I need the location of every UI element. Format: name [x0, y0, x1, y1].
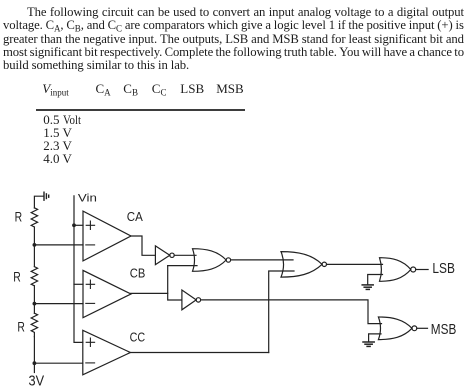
wire node A to CA minus: [34, 244, 83, 246]
ground (rotated right, top of ladder): [44, 192, 49, 200]
table rule: [36, 109, 245, 110]
svg-text:R: R: [15, 209, 23, 224]
ground under MSB gate: [363, 342, 374, 346]
NOR gate G1: [193, 249, 231, 272]
svg-text:R: R: [13, 269, 21, 284]
junction dot Vin/CA+: [72, 223, 76, 227]
resistor R2: [31, 267, 37, 286]
wire CB output: [131, 292, 168, 294]
wire inverter 1 out to NOR1 top input: [174, 254, 196, 256]
wire MSB output: [417, 327, 428, 329]
wire NOR1 out to NOR2 top input: [231, 259, 293, 261]
svg-text:MSB: MSB: [431, 321, 457, 338]
wire MSB gate bottom input from ground: [369, 334, 381, 342]
op-amp comparator CC: [83, 330, 131, 375]
svg-text:CB: CB: [130, 265, 146, 280]
op-amp comparator CA: [83, 211, 131, 261]
wire node B to CB minus: [34, 303, 83, 305]
wire ladder top corner: [34, 196, 43, 208]
Vin vertical rail: [74, 196, 83, 343]
ground under LSB gate: [362, 285, 373, 290]
wire Vin to CA plus: [74, 224, 83, 226]
wire NOR1 bottom input from riser: [168, 265, 197, 267]
resistor R1: [31, 208, 37, 227]
wire R2 to node B: [33, 286, 35, 313]
NOR gate G4 (MSB): [378, 317, 416, 340]
svg-text:CC: CC: [130, 329, 146, 344]
node B dot: [33, 302, 37, 306]
truth table header: [42, 81, 68, 97]
svg-text:CA: CA: [127, 209, 143, 224]
op-amp comparator CB: [83, 270, 131, 317]
resistor R3: [31, 313, 37, 336]
inverter U1 (buffer with bubble): [155, 246, 174, 265]
wire riser CC output up to NOR2 bottom input: [269, 271, 294, 353]
node C dot: [33, 361, 37, 365]
wire LSB output: [416, 269, 428, 271]
svg-text:3V: 3V: [29, 373, 45, 390]
wire NOR2 out to LSB gate top input: [327, 263, 383, 265]
wire node C to CC minus: [34, 362, 82, 364]
wire R3 to node C and 3V terminal: [33, 337, 35, 373]
NOR gate G3 (LSB): [380, 258, 416, 282]
wire R1 to node A: [33, 227, 35, 267]
svg-text:Vin: Vin: [78, 192, 97, 204]
wire riser CB output up to NOR1: [168, 266, 182, 300]
wire Vin to CB plus: [74, 283, 83, 285]
node A dot: [33, 243, 37, 247]
wire CC output: [130, 352, 268, 354]
svg-text:R: R: [17, 320, 25, 335]
table rows: [43, 112, 84, 128]
svg-text:LSB: LSB: [432, 260, 455, 277]
paragraph of problem text: [3, 6, 464, 73]
NOR gate G2: [281, 252, 326, 278]
wire CA output to inverter 1: [131, 236, 155, 255]
wire LSB gate bottom input from ground: [368, 275, 383, 285]
wire inverter 2 out across to MSB gate: [201, 300, 382, 324]
inverter U2 (buffer with bubble): [182, 290, 201, 310]
